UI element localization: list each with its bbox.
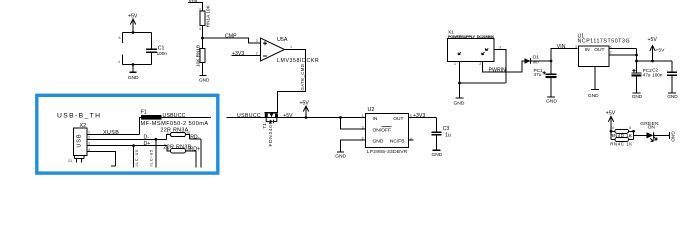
node junction top C1 — [132, 31, 135, 34]
pin 8 stub U5 power — [119, 33, 123, 44]
wire pin2 D- — [87, 135, 167, 141]
svg-text:USB-B_TH: USB-B_TH — [57, 112, 101, 119]
svg-text:GND: GND — [546, 98, 557, 104]
pin 4 stub U5 power — [118, 55, 123, 65]
svg-text:RD-: RD- — [190, 134, 199, 140]
svg-text:ON: ON — [648, 125, 656, 131]
resistor RN3A 22R — [160, 128, 190, 140]
svg-text:GND: GND — [632, 94, 643, 99]
svg-text:ILC-05: ILC-05 — [134, 149, 139, 167]
svg-text:OUT: OUT — [393, 116, 403, 122]
svg-text:3: 3 — [88, 142, 90, 146]
wire +5V rail right — [637, 60, 673, 62]
svg-text:3: 3 — [256, 39, 258, 43]
svg-text:FDN340P: FDN340P — [268, 120, 273, 146]
svg-text:1: 1 — [362, 114, 364, 118]
svg-text:T1: T1 — [262, 123, 267, 129]
svg-text:3: 3 — [199, 8, 201, 12]
ground rotated at LED — [670, 131, 676, 142]
node junction pin2/pin4 — [635, 54, 638, 57]
svg-text:MF-MSMF050-2 500mA: MF-MSMF050-2 500mA — [141, 121, 209, 127]
power +5V symbol LED — [606, 110, 616, 139]
svg-text:1: 1 — [454, 62, 456, 66]
wire CMP to opamp — [203, 34, 261, 43]
svg-text:NCP1117ST50T3G: NCP1117ST50T3G — [578, 39, 631, 45]
svg-text:4: 4 — [88, 148, 90, 152]
svg-text:3: 3 — [612, 134, 614, 138]
svg-text:8: 8 — [119, 36, 121, 40]
ground below PC2 — [632, 93, 643, 99]
svg-text:VIN: VIN — [557, 44, 566, 50]
connector X2 USB-B_TH — [57, 112, 101, 163]
diode D1 M7 — [525, 55, 552, 65]
svg-text:3: 3 — [167, 147, 169, 151]
node junction enable tap — [339, 116, 342, 119]
node junction bottom C1 — [132, 63, 135, 66]
svg-text:IN: IN — [585, 47, 590, 53]
node junction rail left — [635, 60, 638, 63]
wire out vertical — [636, 49, 638, 62]
wire U1 pin2 out — [609, 54, 637, 56]
svg-text:+5V: +5V — [656, 48, 666, 54]
svg-text:6: 6 — [629, 134, 631, 138]
svg-text:5: 5 — [629, 126, 631, 130]
capacitor C1 100n — [146, 33, 168, 65]
wire D- drop with label — [148, 139, 156, 167]
ground below U1 — [588, 90, 599, 99]
transistor T1 FDN340P — [262, 113, 279, 147]
node junction X1 gnd — [458, 82, 461, 85]
highlight box — [37, 95, 218, 173]
node junction RN4 left — [610, 130, 613, 133]
connector X1 POWERSUPPLY_DC21MMX — [448, 29, 502, 66]
svg-text:4: 4 — [199, 27, 201, 31]
svg-text:D-: D- — [144, 135, 150, 141]
wire USBUCC — [227, 113, 265, 119]
svg-text:RN1A 10K: RN1A 10K — [205, 5, 210, 28]
svg-text:USBUCC: USBUCC — [163, 113, 186, 119]
wire bottom rail — [123, 64, 152, 66]
wire RN4 right vertical — [633, 131, 635, 139]
op-amp U5A LMV358IDCKR — [256, 37, 320, 64]
svg-text:LMV358IDCKR: LMV358IDCKR — [277, 58, 319, 64]
node junction D+ — [132, 144, 135, 147]
svg-text:GND: GND — [454, 100, 465, 106]
svg-text:2: 2 — [610, 50, 612, 54]
wire VIN to U1 — [551, 44, 578, 61]
wire D+ drop with label — [134, 146, 140, 168]
wire top rail — [123, 32, 152, 34]
svg-text:XUSB: XUSB — [103, 130, 119, 136]
ground below C1 — [128, 65, 139, 82]
LED GREEN ON — [640, 121, 659, 141]
wire enable to ON/OFF — [341, 118, 366, 130]
svg-text:GATE_CMD: GATE_CMD — [300, 64, 305, 91]
svg-text:1: 1 — [88, 131, 90, 135]
svg-text:47u: 47u — [534, 72, 542, 77]
wire RD- — [190, 134, 202, 167]
regulator U2 LP2985-33DBVR — [362, 107, 412, 155]
wire U2 pin4 stub — [409, 139, 414, 141]
node junction D- — [154, 138, 157, 141]
capacitor C3 1u — [432, 118, 451, 150]
node junction +5V arrow right — [651, 60, 654, 63]
resistor RN4C 1K — [610, 134, 633, 146]
svg-text:2: 2 — [88, 135, 90, 139]
svg-text:USB: USB — [77, 133, 83, 147]
wire U2 out +3V3 — [409, 113, 437, 119]
wire pin4 gnd stub — [87, 148, 116, 166]
svg-text:CMP: CMP — [225, 34, 237, 40]
svg-text:GND: GND — [335, 153, 346, 159]
resistor RN4D 1K — [610, 126, 633, 138]
capacitor PC1 47u — [534, 61, 557, 97]
svg-text:GND: GND — [373, 138, 384, 144]
resistor RN3B 22R — [163, 144, 196, 167]
svg-text:RD+: RD+ — [190, 146, 201, 152]
svg-text:GND: GND — [432, 152, 443, 158]
net label +3V3 into opamp — [232, 51, 261, 57]
svg-text:GND: GND — [588, 93, 599, 99]
svg-text:U5A: U5A — [277, 37, 288, 43]
wire pin1 XUSB — [87, 130, 140, 136]
svg-text:IN: IN — [373, 116, 378, 122]
wire to LED — [634, 134, 647, 136]
svg-text:22R RN3A: 22R RN3A — [160, 128, 188, 134]
wire opamp output GATE_CMD — [278, 50, 306, 114]
svg-text:3: 3 — [575, 45, 577, 49]
wire pin3 D+ — [87, 141, 167, 147]
svg-text:2: 2 — [167, 131, 169, 135]
svg-text:1u: 1u — [445, 132, 451, 138]
svg-text:OUT: OUT — [594, 47, 604, 53]
svg-text:+5V: +5V — [648, 37, 658, 43]
svg-text:GND: GND — [667, 94, 678, 99]
resistor RN1A 10K — [199, 5, 210, 38]
ground below RN1B — [199, 76, 210, 83]
ground below X1 — [454, 98, 465, 106]
svg-text:F1: F1 — [141, 110, 147, 116]
svg-text:1: 1 — [290, 45, 292, 49]
wire U1 gnd pin — [594, 66, 596, 89]
svg-text:GND: GND — [128, 75, 139, 81]
net label VIN (clipped at top) — [188, 0, 203, 11]
svg-text:C3: C3 — [443, 126, 450, 132]
svg-text:47u: 47u — [643, 72, 651, 77]
wire gnd run to pin3 drop — [460, 82, 506, 84]
svg-text:GND: GND — [671, 131, 676, 142]
capacitor PC2 47u — [632, 61, 653, 93]
ground below U2 — [335, 152, 346, 159]
svg-text:ILC-05: ILC-05 — [148, 149, 153, 167]
svg-text:ON/OFF: ON/OFF — [373, 127, 391, 133]
svg-text:GND: GND — [199, 77, 210, 82]
wire U1 pin4 tab — [609, 48, 637, 50]
wire X1 pin3 drop — [494, 49, 506, 83]
svg-text:RN4C 1K: RN4C 1K — [610, 141, 632, 146]
regulator U1 NCP1117ST50T3G — [575, 33, 630, 66]
svg-text:+3V3: +3V3 — [413, 113, 425, 119]
svg-text:D+: D+ — [144, 141, 151, 147]
svg-text:PWRIN: PWRIN — [489, 67, 507, 73]
power +5V symbol above rail — [300, 100, 310, 117]
svg-text:+3V3: +3V3 — [232, 51, 244, 57]
svg-text:10K RN1B: 10K RN1B — [196, 45, 201, 67]
wire U2 gnd pin — [341, 140, 366, 152]
svg-text:4: 4 — [118, 60, 120, 64]
power +5V symbol right — [648, 37, 666, 61]
svg-text:S1: S1 — [68, 159, 72, 163]
wire PWRIN — [483, 61, 525, 73]
node junction RN4 right — [632, 130, 635, 133]
ground below C3 — [432, 150, 443, 158]
fuse F1 MF-MSMF050-2 — [140, 110, 212, 135]
svg-text:+5V: +5V — [300, 100, 310, 106]
power +5V symbol (C1 block) — [128, 13, 138, 32]
svg-text:100n: 100n — [652, 72, 663, 77]
wire X1 pin1 to gnd — [459, 61, 461, 97]
svg-text:M7: M7 — [533, 59, 540, 64]
ground below PC1 — [546, 97, 557, 104]
svg-text:USBUCC: USBUCC — [237, 113, 261, 119]
ground below C2 — [667, 93, 678, 99]
svg-text:LP2985-33DBVR: LP2985-33DBVR — [367, 149, 408, 155]
capacitor C2 100n — [652, 61, 677, 93]
svg-text:3: 3 — [362, 125, 364, 129]
node junction after D1 — [550, 60, 553, 63]
svg-text:+5V: +5V — [606, 110, 616, 116]
resistor RN1B 10K — [196, 38, 205, 75]
wire LED cathode — [654, 134, 669, 136]
svg-text:100n: 100n — [157, 51, 168, 56]
node junction +5V arrow — [305, 116, 308, 119]
svg-text:NC/FB: NC/FB — [390, 138, 405, 144]
svg-text:4: 4 — [612, 126, 614, 130]
wire +5V rail to U2 — [279, 117, 366, 119]
svg-text:U2: U2 — [368, 107, 375, 113]
node junction divider — [201, 37, 204, 40]
svg-text:2: 2 — [479, 62, 481, 66]
